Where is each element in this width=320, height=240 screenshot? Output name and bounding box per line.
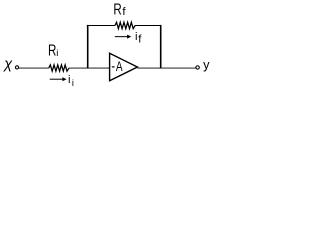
wire output [137, 67, 196, 69]
svg-text:A: A [116, 59, 123, 75]
svg-text:R: R [113, 0, 121, 18]
svg-text:y: y [203, 57, 210, 72]
svg-text:i: i [56, 48, 58, 59]
label Rf [113, 0, 121, 18]
svg-text:i: i [135, 31, 138, 43]
wire Ri to amplifier [69, 67, 110, 69]
svg-text:i: i [72, 78, 74, 88]
current arrow i_i [50, 78, 64, 80]
input terminal circle [15, 66, 18, 69]
wire feedback top right segment [135, 25, 162, 27]
label Ri [48, 41, 56, 59]
svg-text:i: i [68, 74, 71, 86]
wire vertical right feedback [160, 25, 162, 69]
op-amp U1 triangle [110, 53, 138, 81]
wire vertical left feedback [87, 25, 89, 69]
current arrow i_f [115, 36, 128, 38]
svg-text:R: R [48, 41, 56, 59]
output terminal circle [196, 66, 199, 69]
wire feedback top left segment [87, 25, 115, 27]
svg-text:χ: χ [2, 57, 13, 73]
label -A inside amplifier [112, 66, 115, 68]
resistor Rf [115, 22, 135, 28]
resistor Ri [49, 65, 69, 71]
wire input to Ri [19, 67, 49, 69]
